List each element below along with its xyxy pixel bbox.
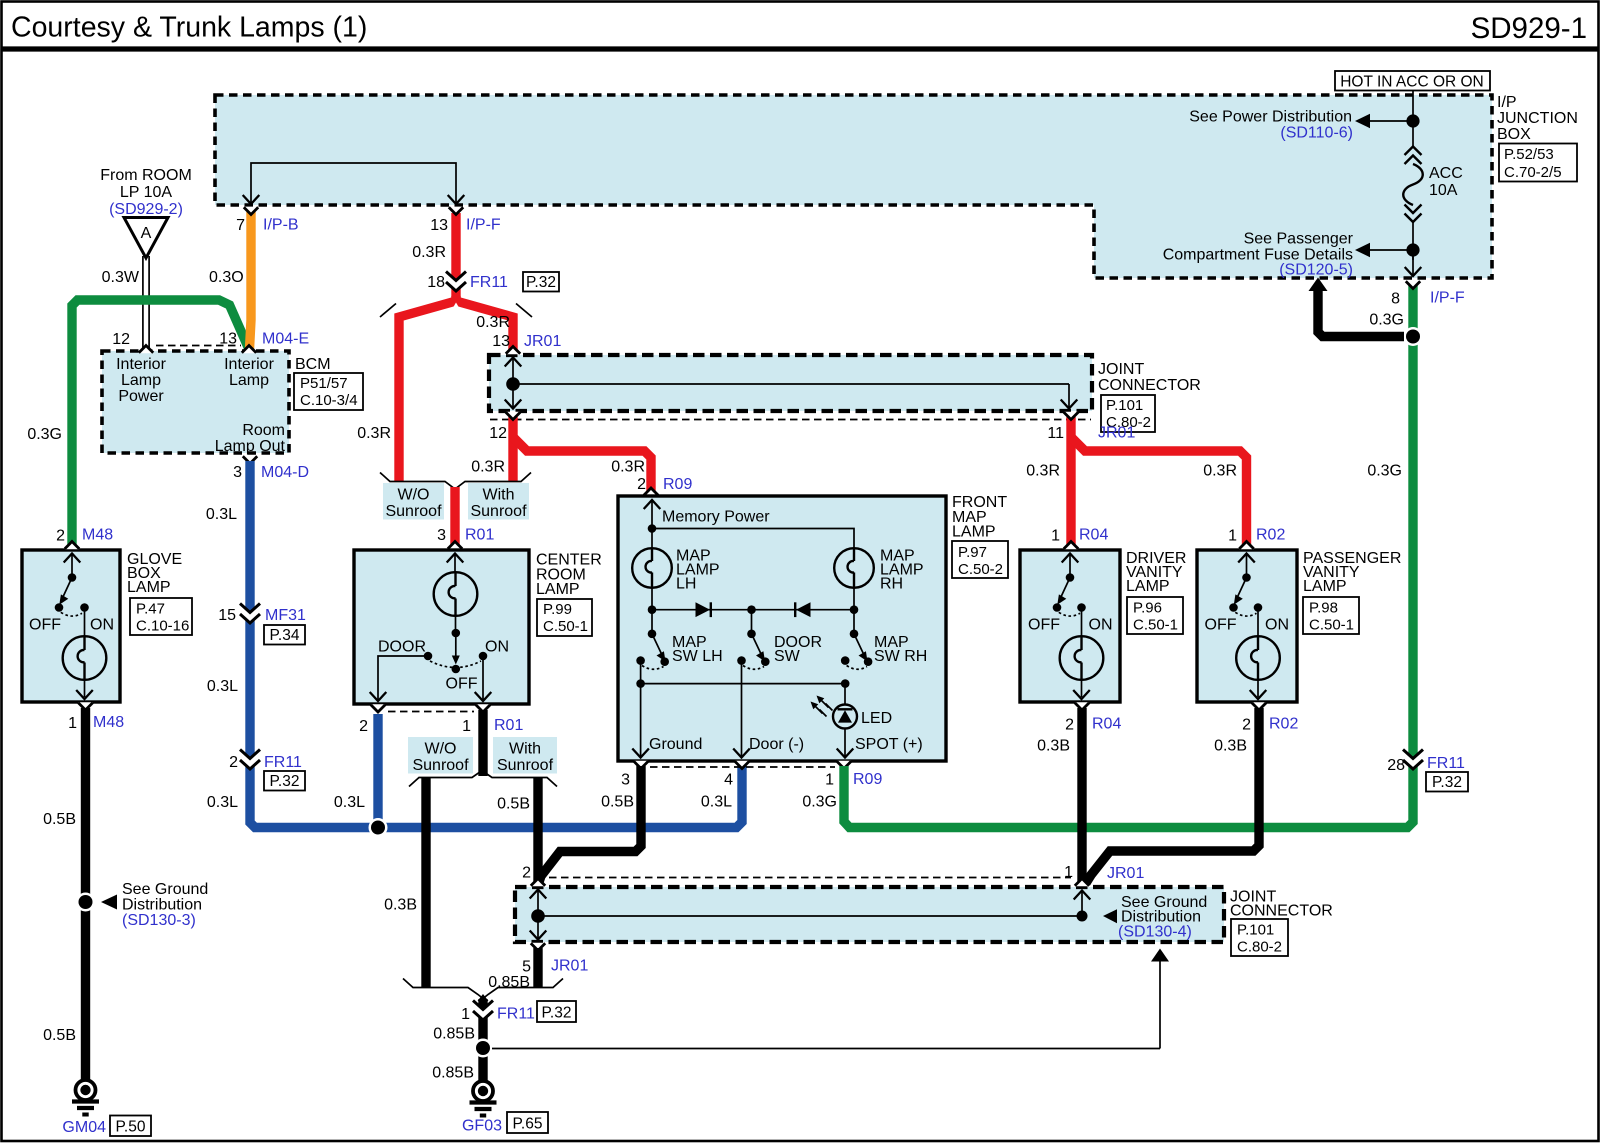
wire 0.3B: R02-2 down and jog to JR01-1: [1086, 708, 1259, 883]
junction dot: green at I/P-F elbow: [1404, 327, 1423, 346]
svg-text:0.3L: 0.3L: [206, 506, 237, 523]
junction dot inside connector: [506, 377, 520, 391]
svg-text:W/O: W/O: [398, 487, 430, 504]
pin row dashed (bottom joint connector): [549, 877, 1071, 879]
diode row: [652, 609, 854, 611]
svg-text:Sunroof: Sunroof: [412, 757, 469, 774]
internal bus to pin 11: [513, 383, 1069, 385]
wire 0.5B: M48-1 down to ground GM04: [81, 708, 90, 1080]
svg-text:R04: R04: [1092, 716, 1121, 733]
svg-text:R09: R09: [853, 771, 882, 788]
svg-text:Distribution: Distribution: [122, 897, 202, 914]
svg-text:P.99: P.99: [543, 601, 572, 618]
tag W/O Sunroof (lower): [408, 737, 473, 774]
svg-text:Memory Power: Memory Power: [662, 509, 770, 526]
room lamp switch: pole arm pointing to OFF: [455, 633, 457, 658]
wire 0.3G: R09 spot pin to green bus: [844, 281, 1413, 828]
svg-text:0.3B: 0.3B: [1037, 738, 1070, 755]
svg-text:SD929-1: SD929-1: [1471, 12, 1587, 45]
SPOT(+) pin lead: [844, 729, 846, 757]
svg-text:2: 2: [359, 718, 368, 735]
svg-text:2: 2: [229, 754, 238, 771]
switch MAP SW LH: [651, 610, 653, 632]
connector 15 MF31 (in-line): [240, 603, 260, 623]
svg-text:(SD130-4): (SD130-4): [1118, 924, 1192, 941]
internal double arrow at pin 13/12: [512, 358, 514, 408]
svg-text:C.10-3/4: C.10-3/4: [300, 392, 358, 409]
pin 13 JR01: [506, 347, 520, 355]
svg-text:R09: R09: [663, 476, 692, 493]
internal ground bus: [640, 661, 642, 684]
map lamp RH bulb: [834, 548, 874, 588]
svg-text:DOOR: DOOR: [378, 639, 426, 656]
svg-text:With: With: [483, 487, 515, 504]
node below bulb: [455, 616, 457, 634]
connector pin 7 I/P-B: [244, 207, 258, 215]
svg-text:4: 4: [724, 772, 733, 789]
pin 3 R09 (ground): [634, 761, 648, 769]
svg-text:0.3G: 0.3G: [27, 426, 62, 443]
pin 2 R04: [1075, 702, 1089, 710]
HOT IN ACC OR ON tag: [1335, 71, 1490, 91]
svg-text:0.5B: 0.5B: [497, 796, 530, 813]
I/P box internal bus I/P-B to I/P-F: [251, 163, 456, 203]
pin row dashed: R01: [388, 711, 474, 713]
svg-text:FR11: FR11: [470, 274, 508, 291]
svg-text:(SD110-6): (SD110-6): [1280, 125, 1353, 142]
svg-text:0.3G: 0.3G: [802, 794, 837, 811]
svg-text:P.50: P.50: [116, 1119, 146, 1136]
svg-text:GM04: GM04: [62, 1119, 106, 1136]
svg-text:0.3R: 0.3R: [471, 459, 505, 476]
ground GF03: [470, 1081, 497, 1116]
svg-text:0.85B: 0.85B: [433, 1026, 475, 1043]
svg-text:R02: R02: [1256, 527, 1285, 544]
svg-text:0.5B: 0.5B: [43, 1027, 76, 1044]
svg-text:13: 13: [492, 333, 510, 350]
svg-text:OFF: OFF: [29, 617, 61, 634]
internal wire from pin 1 to bus: [1081, 891, 1083, 914]
fuse ACC 10A: [1405, 147, 1422, 165]
svg-text:11: 11: [1047, 425, 1064, 442]
pin 1 M48: [78, 702, 92, 710]
connector 18 FR11 (in-line): [446, 271, 466, 291]
svg-text:P.32: P.32: [526, 274, 556, 291]
wire 0.5B: R09 ground pin to JR01-2: [539, 766, 641, 882]
svg-text:Lamp: Lamp: [121, 372, 161, 389]
svg-text:MF31: MF31: [265, 607, 306, 624]
node: joint connector ground tie: [474, 1039, 493, 1058]
pin 2 R01: [371, 704, 385, 712]
svg-text:I/P-F: I/P-F: [1430, 290, 1465, 307]
svg-text:10A: 10A: [1429, 182, 1458, 199]
svg-text:OFF: OFF: [1205, 617, 1237, 634]
svg-text:7: 7: [236, 217, 245, 234]
svg-text:2: 2: [637, 476, 646, 493]
svg-text:ON: ON: [1265, 617, 1289, 634]
svg-text:3: 3: [621, 772, 630, 789]
I/P junction box (dashed L-shaped box): [215, 95, 1492, 278]
title divider: [2, 46, 1598, 51]
see ground distribution SD130-4: [1103, 909, 1117, 923]
wire ON contact to pin 1: [482, 660, 484, 700]
svg-text:ON: ON: [1089, 617, 1113, 634]
svg-text:P.101: P.101: [1237, 922, 1274, 939]
svg-text:P.32: P.32: [1432, 774, 1462, 791]
svg-text:P.34: P.34: [270, 627, 300, 644]
svg-text:0.3W: 0.3W: [102, 269, 140, 286]
svg-text:M48: M48: [82, 527, 113, 544]
wire 0.3L blue: R01 pin2 branch down to junction: [373, 714, 382, 828]
svg-text:28: 28: [1387, 757, 1405, 774]
svg-text:Sunroof: Sunroof: [497, 757, 554, 774]
svg-text:3: 3: [437, 527, 446, 544]
triangle A symbol: [124, 218, 168, 259]
svg-text:CONNECTOR: CONNECTOR: [1098, 377, 1201, 394]
svg-text:JUNCTION: JUNCTION: [1497, 110, 1578, 127]
memory power node: [651, 500, 653, 529]
svg-text:12: 12: [489, 425, 507, 442]
svg-text:Lamp Out: Lamp Out: [215, 438, 286, 455]
svg-text:P.65: P.65: [513, 1116, 543, 1133]
svg-text:0.3L: 0.3L: [334, 794, 365, 811]
wire: hot feed down into I/P box: [1412, 90, 1414, 146]
connector 28 FR11 on green: [1403, 749, 1423, 769]
svg-text:8: 8: [1391, 291, 1400, 308]
svg-text:P51/57: P51/57: [300, 375, 348, 392]
BCM pin 13 M04-E: [242, 346, 256, 354]
svg-text:LAMP: LAMP: [1126, 578, 1170, 595]
wire 0.3W (white wire, drawn as double line) from triangle to BCM pin 12: [142, 256, 144, 350]
svg-text:18: 18: [427, 274, 445, 291]
pin 4 R09 (door): [735, 761, 749, 769]
svg-text:HOT IN ACC OR ON: HOT IN ACC OR ON: [1340, 74, 1484, 91]
pin 2 R02: [1252, 702, 1266, 710]
svg-text:SW LH: SW LH: [672, 648, 723, 665]
svg-text:A: A: [141, 225, 152, 242]
svg-text:GF03: GF03: [462, 1118, 502, 1135]
svg-text:0.3R: 0.3R: [611, 459, 645, 476]
svg-text:P.52/53: P.52/53: [1504, 146, 1554, 163]
svg-text:1: 1: [461, 1006, 470, 1023]
svg-text:0.3G: 0.3G: [1369, 312, 1404, 329]
svg-text:0.85B: 0.85B: [488, 974, 530, 991]
svg-text:5: 5: [522, 959, 531, 976]
svg-text:2: 2: [522, 865, 531, 882]
sunroof option bracket (top): [380, 473, 531, 490]
R02 switch: [1246, 554, 1248, 576]
diode D2 (RH to center): [796, 602, 811, 617]
svg-text:0.3R: 0.3R: [357, 425, 391, 442]
M48 bulb: [84, 611, 86, 637]
svg-text:C.50-2: C.50-2: [958, 561, 1003, 578]
svg-text:R01: R01: [494, 717, 523, 734]
svg-text:2: 2: [56, 528, 65, 545]
internal double arrow at pin 2/5: [537, 890, 539, 939]
LED with light arrows: [844, 684, 846, 705]
svg-text:P.101: P.101: [1106, 397, 1143, 414]
pin 2 M48: [65, 542, 79, 550]
svg-text:C.50-1: C.50-1: [1133, 617, 1178, 634]
svg-text:0.3L: 0.3L: [701, 794, 732, 811]
harness ticks at split: [380, 304, 396, 318]
pin row dashed: BCM: [156, 345, 241, 347]
pin 5 JR01: [531, 943, 545, 951]
R04 bulb: [1081, 611, 1083, 637]
wire 0.3R: JR01-12 down (with sunroof) and jog to R09: [508, 417, 517, 481]
wire 0.3O orange: I/P-B pin 7 to BCM pin 13: [250, 212, 252, 349]
svg-text:(SD120-5): (SD120-5): [1279, 262, 1353, 279]
svg-text:P.32: P.32: [542, 1005, 572, 1022]
tag With Sunroof: [468, 483, 529, 520]
R02 bulb: [1257, 611, 1259, 637]
svg-text:P.98: P.98: [1309, 600, 1338, 617]
svg-text:With: With: [509, 741, 541, 758]
pin 3 R01: [448, 542, 462, 550]
svg-text:C.50-1: C.50-1: [543, 618, 588, 635]
tag W/O Sunroof: [383, 483, 444, 520]
svg-text:FR11: FR11: [264, 754, 302, 771]
svg-text:0.3R: 0.3R: [1203, 463, 1237, 480]
node: power distribution tap: [1368, 120, 1408, 122]
svg-text:0.3G: 0.3G: [1367, 463, 1402, 480]
svg-text:Interior: Interior: [116, 356, 166, 373]
svg-text:JR01: JR01: [524, 333, 561, 350]
front map lamp R09 box: [618, 496, 946, 761]
svg-text:(SD929-2): (SD929-2): [109, 201, 183, 218]
svg-text:I/P-B: I/P-B: [263, 217, 299, 234]
wire 0.3G green: glove box feed from BCM area: [72, 300, 248, 549]
wire: fuse to passenger-fuse tap: [1412, 222, 1414, 260]
svg-text:FR11: FR11: [497, 1006, 535, 1023]
svg-text:0.5B: 0.5B: [43, 811, 76, 828]
ground GM04: [72, 1080, 99, 1115]
tag With Sunroof (lower): [493, 737, 557, 774]
svg-text:0.3R: 0.3R: [476, 314, 510, 331]
svg-text:JR01: JR01: [551, 958, 588, 975]
svg-text:ON: ON: [485, 639, 509, 656]
pin 11 JR01: [1064, 412, 1078, 420]
pin 8 I/P-F: [1406, 281, 1420, 289]
svg-text:(SD130-3): (SD130-3): [122, 912, 196, 929]
svg-text:M48: M48: [93, 714, 124, 731]
svg-text:0.3B: 0.3B: [1214, 738, 1247, 755]
svg-text:2: 2: [1242, 717, 1251, 734]
node: passenger fuse details tap: [1368, 249, 1408, 251]
node: see ground distribution SD130-3: [76, 893, 95, 912]
passenger vanity lamp R02 box: [1197, 550, 1297, 702]
svg-text:SW RH: SW RH: [874, 648, 927, 665]
svg-text:0.3L: 0.3L: [207, 794, 238, 811]
pin 1 R01: [476, 704, 490, 712]
svg-text:12: 12: [112, 331, 130, 348]
pin 1 R04: [1064, 542, 1078, 550]
svg-text:ON: ON: [90, 617, 114, 634]
wire 0.5B from R01-1: [478, 710, 487, 776]
svg-text:R02: R02: [1269, 716, 1298, 733]
sunroof option bracket (inverted, below R01): [409, 771, 557, 787]
svg-text:See Power Distribution: See Power Distribution: [1189, 109, 1352, 126]
junction dot: blue bus: [369, 818, 388, 837]
ground pin lead: [640, 684, 642, 756]
svg-text:0.3R: 0.3R: [1026, 463, 1060, 480]
svg-text:P.96: P.96: [1133, 600, 1162, 617]
svg-text:SPOT (+): SPOT (+): [855, 736, 923, 753]
svg-text:P.47: P.47: [136, 601, 165, 618]
svg-text:1: 1: [68, 715, 77, 732]
room lamp bulb: [434, 572, 478, 616]
driver vanity lamp R04 box: [1020, 550, 1120, 702]
svg-text:Door (-): Door (-): [749, 736, 804, 753]
pin 1 R02: [1239, 542, 1253, 550]
svg-text:Lamp: Lamp: [229, 372, 269, 389]
R04 switch: [1069, 554, 1071, 576]
svg-text:JOINT: JOINT: [1098, 361, 1144, 378]
svg-text:JR01: JR01: [1107, 865, 1144, 882]
svg-text:0.85B: 0.85B: [432, 1065, 474, 1082]
connector pin 13 I/P-F: [449, 207, 463, 215]
svg-text:R04: R04: [1079, 527, 1108, 544]
svg-text:W/O: W/O: [425, 741, 457, 758]
internal wire arrow to pin 8: [1412, 250, 1414, 275]
BCM pin 3 M04-D: [243, 456, 257, 464]
svg-text:0.3B: 0.3B: [384, 897, 417, 914]
pin 1 R09 (spot): [837, 761, 851, 769]
svg-text:P.32: P.32: [270, 773, 300, 790]
svg-text:BCM: BCM: [295, 356, 331, 373]
svg-text:1: 1: [825, 772, 834, 789]
pin 1 JR01 (bottom JC): [1075, 879, 1089, 887]
wire 0.3B: W/O sunroof black down to merge: [421, 778, 430, 987]
pin row dashed below connector: [490, 419, 1091, 421]
svg-text:Interior: Interior: [224, 356, 274, 373]
BCM box: [102, 351, 289, 453]
wire 0.3R: I/P-F to FR11-18 and split: [451, 213, 460, 301]
svg-text:1: 1: [1228, 528, 1237, 545]
wire 0.3R merged to R01-3: [450, 487, 459, 549]
svg-text:LAMP: LAMP: [536, 581, 580, 598]
room lamp internal feed arrow: [454, 554, 456, 573]
center room lamp R01 box: [354, 550, 529, 704]
svg-text:OFF: OFF: [446, 676, 478, 693]
svg-text:Power: Power: [118, 388, 164, 405]
svg-text:SW: SW: [774, 648, 801, 665]
svg-text:BOX: BOX: [1497, 126, 1531, 143]
switch MAP SW RH: [853, 610, 855, 632]
pin 12 JR01: [506, 412, 520, 420]
svg-text:1: 1: [1064, 864, 1073, 881]
internal bus: [538, 915, 1082, 917]
connector 2 FR11 (in-line): [240, 749, 260, 769]
svg-text:C.80-2: C.80-2: [1237, 939, 1282, 956]
svg-text:JR01: JR01: [1098, 425, 1135, 442]
svg-text:Courtesy & Trunk Lamps (1): Courtesy & Trunk Lamps (1): [11, 12, 367, 44]
wire 0.5B: with sunroof black down to JR01-2: [533, 778, 542, 884]
svg-text:C.10-16: C.10-16: [136, 618, 189, 635]
svg-text:LAMP: LAMP: [952, 524, 996, 541]
svg-text:Sunroof: Sunroof: [385, 503, 442, 520]
svg-text:M04-E: M04-E: [262, 331, 309, 348]
svg-text:M04-D: M04-D: [261, 464, 309, 481]
svg-text:R01: R01: [465, 527, 494, 544]
pin row dashed: R09: [650, 766, 835, 768]
wire 0.3B: R04-2 down to JR01-1: [1077, 708, 1086, 884]
svg-text:RH: RH: [880, 576, 903, 593]
svg-text:See Ground: See Ground: [122, 881, 208, 898]
black elbow arrow up into I/P box: [1318, 289, 1404, 337]
glove box lamp M48 box: [22, 550, 120, 702]
svg-text:0.3L: 0.3L: [207, 678, 238, 695]
svg-text:C.50-1: C.50-1: [1309, 617, 1354, 634]
svg-text:13: 13: [430, 217, 448, 234]
BCM pin 12: [139, 346, 153, 354]
pin 2 R09: [644, 488, 658, 496]
wire 0.85B merged through FR11-1 to GF03: [478, 994, 489, 1001]
svg-text:0.5B: 0.5B: [601, 794, 634, 811]
svg-text:ACC: ACC: [1429, 165, 1463, 182]
svg-text:From ROOM: From ROOM: [100, 167, 192, 184]
svg-text:I/P-F: I/P-F: [466, 217, 501, 234]
wire split: red Y below FR11: [399, 296, 456, 481]
merge bracket above FR11-1: [403, 979, 563, 999]
svg-text:P.97: P.97: [958, 544, 987, 561]
wire 0.85B: JR01-5 down to merge: [533, 948, 542, 987]
pin 2 JR01 (bottom JC): [531, 879, 545, 887]
svg-text:LAMP: LAMP: [1303, 578, 1347, 595]
switch contacts DOOR / ON: [424, 652, 433, 661]
svg-text:LED: LED: [861, 710, 892, 727]
svg-text:LAMP: LAMP: [127, 579, 171, 596]
connector 1 FR11: [473, 1000, 493, 1020]
svg-text:Ground: Ground: [649, 736, 702, 753]
svg-text:1: 1: [462, 718, 471, 735]
svg-text:LP 10A: LP 10A: [120, 184, 173, 201]
svg-text:Sunroof: Sunroof: [470, 503, 527, 520]
svg-text:3: 3: [233, 464, 242, 481]
M48 switch: [71, 554, 73, 576]
svg-text:LH: LH: [676, 576, 696, 593]
joint connector JR01 (bottom) box: [515, 887, 1224, 942]
svg-text:I/P: I/P: [1497, 94, 1517, 111]
svg-text:0.3R: 0.3R: [412, 244, 446, 261]
wire 0.3L blue: M04-D down to junction and to Door(-): [250, 461, 742, 828]
svg-text:See Passenger: See Passenger: [1244, 231, 1354, 248]
switch DOOR SW: [751, 610, 753, 632]
svg-text:CONNECTOR: CONNECTOR: [1230, 903, 1333, 920]
svg-text:2: 2: [1065, 717, 1074, 734]
svg-text:0.3O: 0.3O: [209, 269, 244, 286]
wire 0.3R: JR01-11 down to R04 and jog to R02: [1066, 417, 1075, 548]
svg-text:C.70-2/5: C.70-2/5: [1504, 164, 1562, 181]
svg-text:FR11: FR11: [1427, 755, 1465, 772]
svg-text:OFF: OFF: [1028, 617, 1060, 634]
wire DOOR contact to pin 2: [378, 656, 428, 694]
svg-text:Room: Room: [242, 422, 285, 439]
joint connector JR01 (top) box: [489, 355, 1092, 411]
svg-text:1: 1: [1051, 528, 1060, 545]
svg-text:15: 15: [218, 607, 236, 624]
diode D1 (LH to center): [696, 602, 711, 617]
door(-) pin lead: [741, 661, 743, 756]
map lamp LH bulb: [651, 528, 653, 549]
